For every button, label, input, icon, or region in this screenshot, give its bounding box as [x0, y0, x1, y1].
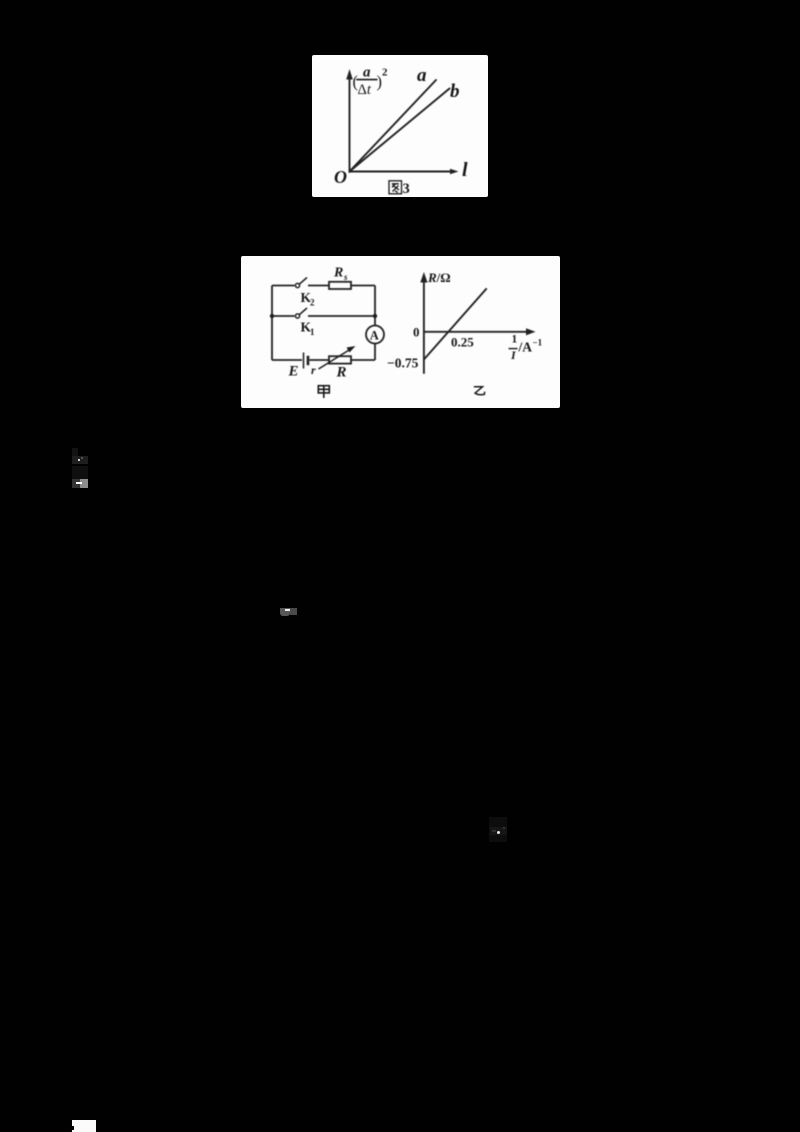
svg-text:A: A: [370, 329, 379, 343]
svg-text:1: 1: [310, 327, 315, 337]
svg-text:b: b: [450, 81, 460, 102]
svg-text:R/Ω: R/Ω: [427, 270, 451, 285]
svg-text:r: r: [311, 363, 316, 377]
svg-text:−0.75: −0.75: [387, 356, 419, 371]
svg-text:1: 1: [512, 334, 518, 346]
svg-text:0.25: 0.25: [451, 335, 474, 350]
svg-text:O: O: [334, 167, 347, 187]
svg-text:R: R: [333, 266, 343, 281]
svg-text:Δt: Δt: [358, 82, 372, 98]
svg-text:−1: −1: [533, 338, 543, 348]
svg-text:2: 2: [310, 298, 315, 308]
svg-text:/A: /A: [518, 340, 533, 355]
svg-text:R: R: [336, 365, 347, 381]
svg-text:I: I: [510, 348, 517, 362]
svg-text:2: 2: [382, 67, 388, 79]
svg-text:a: a: [417, 65, 427, 86]
svg-text:0: 0: [413, 325, 420, 340]
svg-text:l: l: [462, 159, 468, 181]
svg-text:E: E: [288, 364, 299, 380]
svg-text:s: s: [343, 272, 348, 282]
svg-text:a: a: [363, 65, 371, 81]
svg-text:3: 3: [403, 181, 410, 197]
